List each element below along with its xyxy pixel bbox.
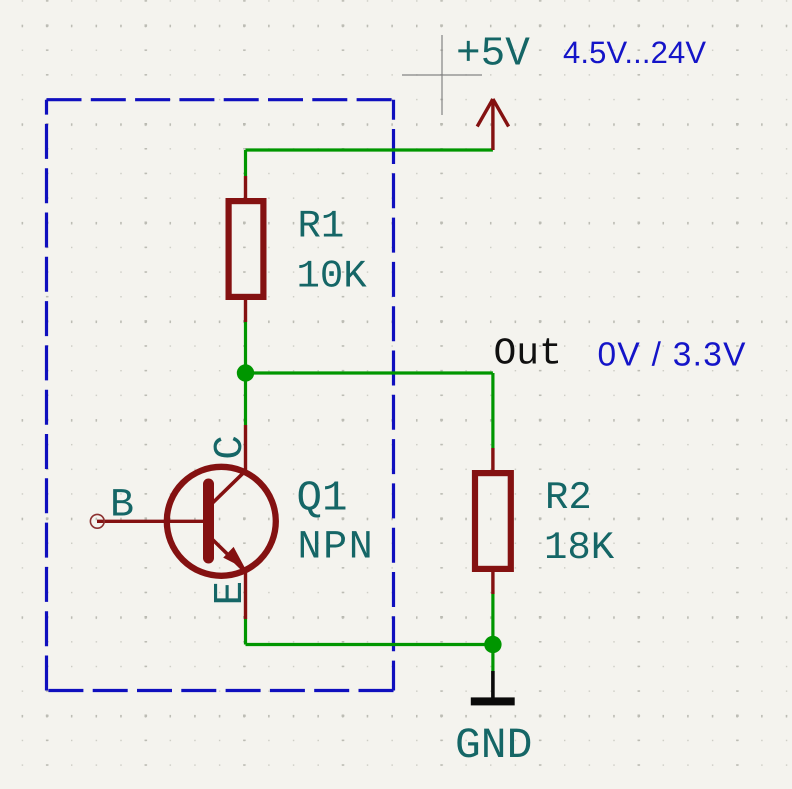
svg-text:Out: Out xyxy=(494,333,562,376)
svg-text:C: C xyxy=(208,435,254,460)
svg-text:+5V: +5V xyxy=(456,31,530,77)
svg-text:GND: GND xyxy=(455,721,532,770)
svg-text:10K: 10K xyxy=(297,255,368,299)
svg-text:0V / 3.3V: 0V / 3.3V xyxy=(598,336,747,373)
svg-text:4.5V...24V: 4.5V...24V xyxy=(563,35,706,70)
svg-text:18K: 18K xyxy=(544,526,615,570)
svg-text:R1: R1 xyxy=(298,204,345,248)
svg-text:NPN: NPN xyxy=(298,526,375,571)
svg-text:Q1: Q1 xyxy=(297,475,348,523)
svg-text:E: E xyxy=(208,581,254,606)
svg-text:R2: R2 xyxy=(545,476,592,520)
svg-text:B: B xyxy=(110,483,134,528)
